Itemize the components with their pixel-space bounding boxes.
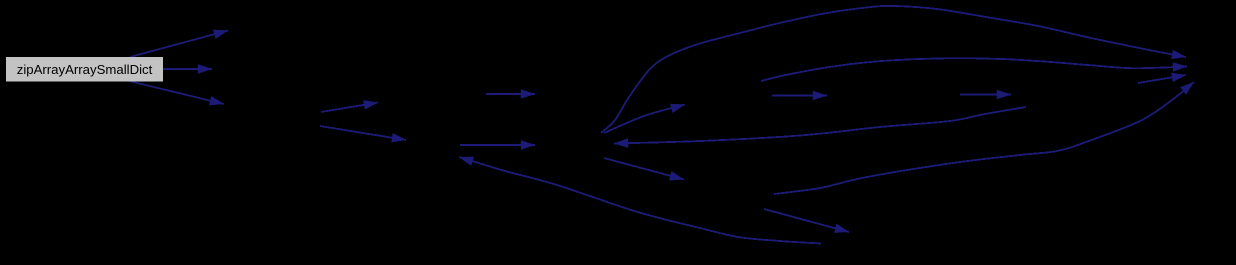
edge n10->n11	[764, 209, 849, 232]
node zipArrayArraySmallDict	[6, 57, 163, 82]
edge n10->n13 (rising curve)	[774, 82, 1194, 194]
edge n7->n13 (gentle arc)	[761, 58, 1187, 81]
edge zipArrayArraySmallDict->n2	[163, 68, 212, 70]
edge n6->n7 (diagonal up)	[604, 105, 685, 134]
edge n9->n13 (short)	[1138, 75, 1186, 83]
edge n6->n13 (big top arc)	[601, 6, 1186, 133]
edge n8->n9	[960, 94, 1011, 96]
edge n3->n5 (lower)	[320, 126, 406, 140]
edge n11->n5 (long back edge)	[459, 157, 821, 244]
edge n9->n6 (back edge)	[614, 107, 1026, 144]
edge n5->n6	[460, 144, 535, 146]
edge n3->n4 (upper)	[321, 103, 378, 113]
edge n6->n10 (diagonal down)	[604, 158, 684, 180]
svg-text:zipArrayArraySmallDict: zipArrayArraySmallDict	[17, 62, 153, 77]
edge zipArrayArraySmallDict->n1	[130, 31, 228, 58]
edge n4->n7	[486, 93, 535, 95]
edge n7->n8	[772, 95, 827, 97]
edge zipArrayArraySmallDict->n3	[129, 81, 224, 104]
